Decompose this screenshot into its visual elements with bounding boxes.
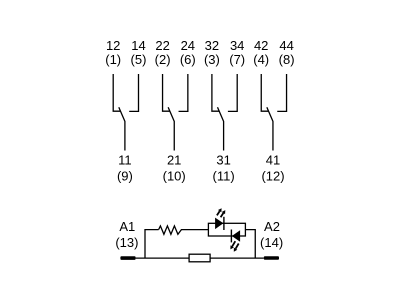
svg-text:A2: A2	[264, 219, 280, 234]
svg-text:34: 34	[230, 38, 244, 53]
svg-text:(2): (2)	[155, 52, 171, 67]
svg-text:11: 11	[118, 152, 132, 167]
svg-text:(11): (11)	[213, 168, 235, 183]
svg-text:42: 42	[254, 38, 268, 53]
svg-text:21: 21	[167, 152, 181, 167]
svg-text:(5): (5)	[131, 52, 147, 67]
svg-text:(7): (7)	[229, 52, 245, 67]
svg-text:(13): (13)	[115, 235, 138, 250]
svg-text:(14): (14)	[260, 235, 283, 250]
svg-text:44: 44	[279, 38, 293, 53]
svg-text:A1: A1	[119, 219, 135, 234]
svg-text:31: 31	[216, 152, 230, 167]
svg-text:32: 32	[205, 38, 219, 53]
svg-text:(6): (6)	[180, 52, 196, 67]
svg-text:14: 14	[131, 38, 145, 53]
svg-text:41: 41	[266, 152, 280, 167]
svg-text:(9): (9)	[117, 168, 133, 183]
svg-text:(1): (1)	[105, 52, 121, 67]
svg-text:22: 22	[155, 38, 169, 53]
svg-text:(8): (8)	[279, 52, 295, 67]
svg-text:12: 12	[106, 38, 120, 53]
svg-text:24: 24	[181, 38, 195, 53]
svg-text:(3): (3)	[204, 52, 220, 67]
svg-text:(10): (10)	[163, 168, 186, 183]
svg-text:(4): (4)	[253, 52, 269, 67]
svg-text:(12): (12)	[261, 168, 284, 183]
